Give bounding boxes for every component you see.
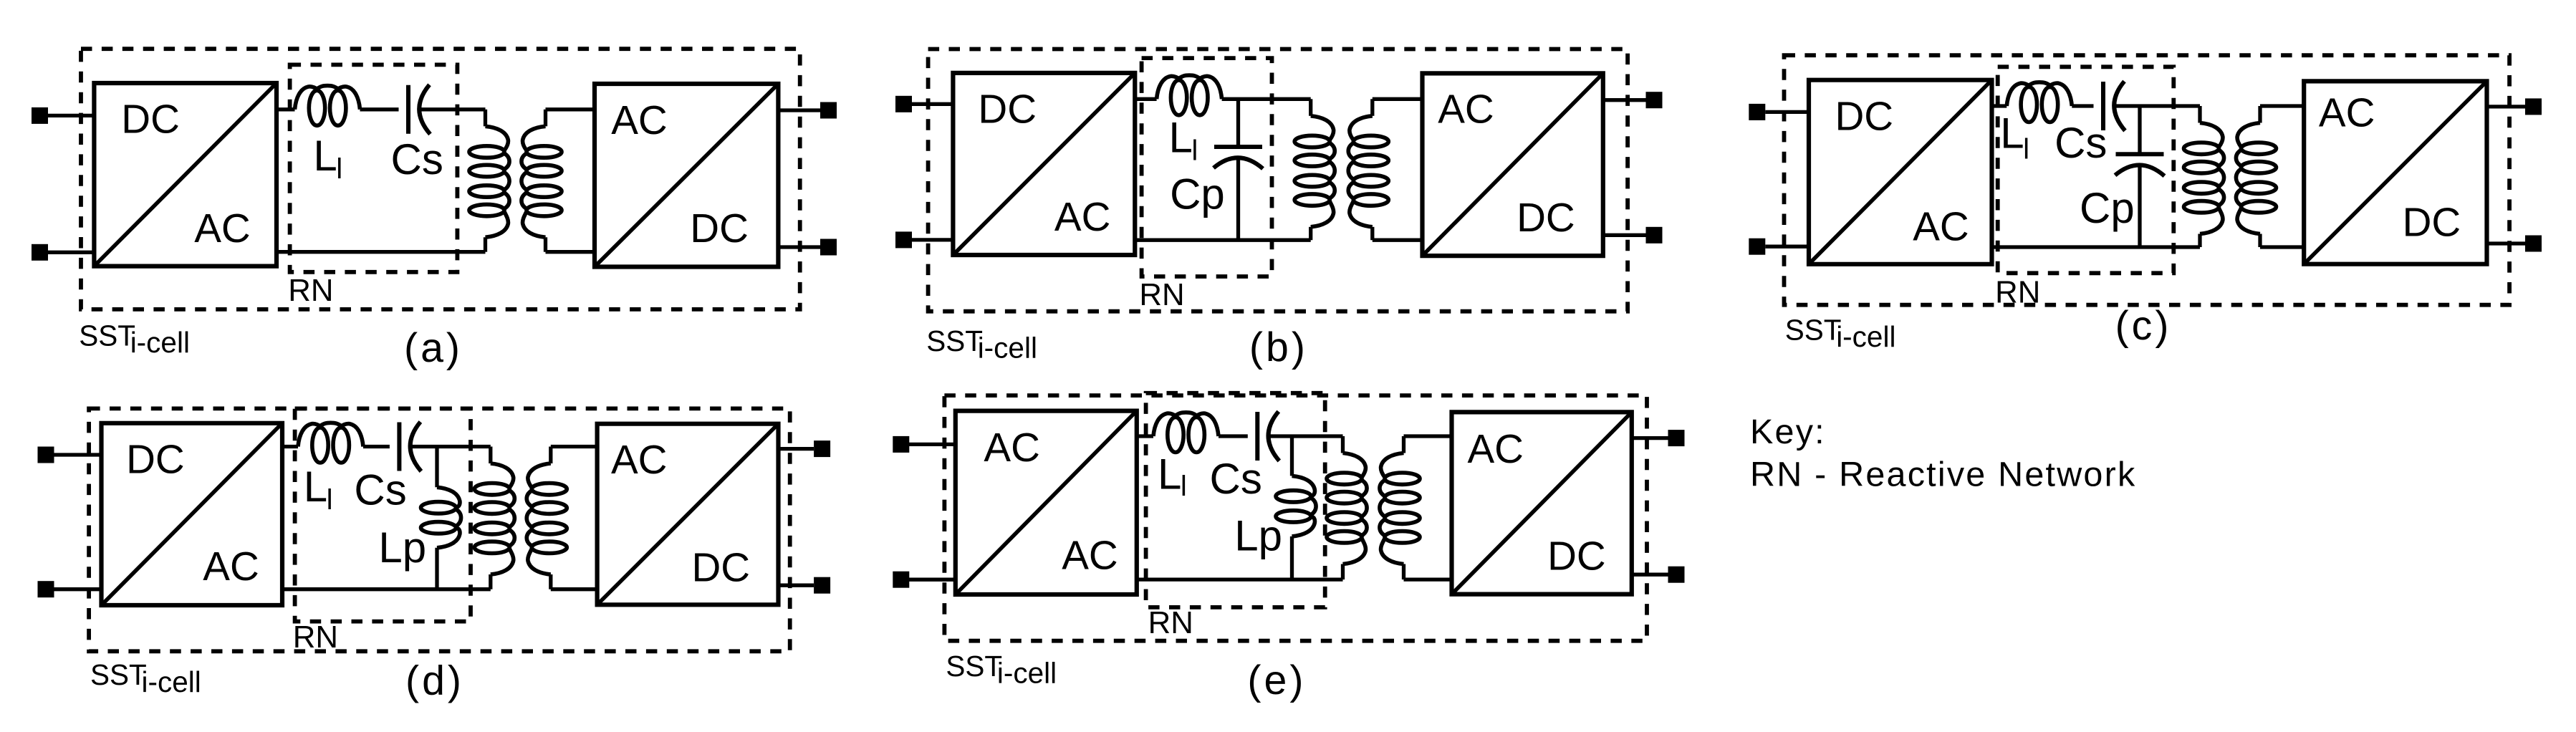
label Ll (a) [313,132,342,185]
wire Cs to transformer (a) [420,107,486,111]
svg-text:DC: DC [691,544,750,589]
label Cp (b) [1170,170,1225,218]
terminal input + (e) [893,436,956,453]
svg-text:AC: AC [1438,86,1494,131]
svg-text:AC: AC [984,425,1040,470]
svg-text:Cs: Cs [354,466,406,514]
inductor Ll (d) [298,423,363,463]
svg-text:l: l [327,484,333,516]
wire bottom rail U3 to transformer (b) [1135,239,1310,242]
caption (c) [2115,303,2172,349]
svg-text:SST: SST [926,324,983,357]
svg-text:Lp: Lp [1234,512,1282,560]
svg-text:i-cell: i-cell [997,656,1057,689]
wire transformer to U4 top (b) [1373,97,1423,101]
label RN (a) [288,273,333,308]
converter U3 DC/AC (b) [953,73,1135,255]
inductor Ll (c) [2007,82,2072,122]
inductor Ll (e) [1153,413,1219,453]
svg-text:AC: AC [1468,426,1524,471]
capacitor Cs (e) [1257,412,1279,461]
svg-text:AC: AC [611,437,668,482]
svg-text:Cp: Cp [1170,170,1225,218]
terminal output - (a) [778,239,837,256]
label Ll (e) [1158,451,1187,502]
svg-text:SST: SST [79,319,135,352]
svg-text:L: L [1158,451,1181,499]
svg-text:DC: DC [1835,94,1894,139]
svg-text:RN: RN [1139,277,1184,312]
svg-text:Cs: Cs [2054,119,2107,167]
svg-text:SST: SST [946,650,1002,683]
wire U1 to Ll (a) [277,107,295,111]
svg-text:AC: AC [1054,194,1111,239]
converter U8 AC/DC (d) [597,424,779,605]
svg-text:DC: DC [1547,534,1606,579]
SST i-cell (e) outer dashed box [944,395,1647,641]
svg-text:L: L [1169,113,1193,161]
label SST i-cell (a) [79,319,190,360]
svg-text:l: l [2023,133,2029,165]
label RN (c) [1995,275,2040,310]
svg-text:L: L [313,132,337,180]
svg-text:i-cell: i-cell [130,326,190,359]
wire U5 to Ll (c) [1992,104,2007,107]
reactive network RN dashed box (c) [1998,67,2174,273]
terminal output - (b) [1603,227,1663,244]
wire bottom rail U9 to transformer (e) [1137,577,1343,581]
key heading text [1750,413,1826,451]
converter U5 DC/AC (c) [1809,80,1992,264]
svg-text:SST: SST [1785,314,1842,347]
svg-text:Cp: Cp [2080,184,2135,232]
inductor Ll (a) [295,86,360,126]
label Lp (e) [1234,512,1282,560]
wire transformer to U6 top (c) [2260,104,2304,107]
svg-text:AC: AC [203,544,259,589]
svg-text:DC: DC [978,87,1037,132]
wire transformer to U10 top (e) [1404,434,1452,438]
terminal output - (c) [2487,236,2542,252]
terminal output + (e) [1632,430,1685,446]
wire U9 to Ll (e) [1137,434,1153,438]
svg-text:l: l [336,153,342,185]
svg-text:SST: SST [90,658,147,691]
svg-text:(b): (b) [1249,324,1308,370]
svg-text:AC: AC [611,97,668,143]
svg-text:DC: DC [121,97,180,142]
terminal input - (d) [38,581,102,597]
caption (d) [405,658,464,703]
terminal input + (c) [1749,104,1809,120]
wire transformer to U2 top (a) [546,107,595,111]
svg-text:DC: DC [126,436,185,481]
svg-text:i-cell: i-cell [1836,320,1895,353]
converter U1 DC/AC (a) [94,83,277,266]
terminal input - (a) [32,244,94,261]
svg-text:AC: AC [194,206,251,251]
wire Ll to node A (b) [1222,97,1311,101]
terminal input + (d) [38,447,102,463]
label Ll (b) [1169,113,1198,166]
wire Ll to Cs (a) [360,107,399,111]
svg-text:AC: AC [1062,533,1118,578]
wire Cs to node B (c) [2115,104,2200,107]
svg-text:AC: AC [2319,90,2375,135]
transformer T4 (d) [474,447,567,589]
svg-text:DC: DC [2403,200,2461,245]
transformer T5 (e) [1327,436,1420,579]
converter U10 AC/DC (e) [1452,412,1632,594]
wire bottom rail U1 to transformer (a) [277,250,486,254]
transformer T1 (a) [469,110,562,252]
reactive network RN dashed box (e) [1146,393,1325,607]
terminal input - (b) [895,231,953,248]
inductor Ll (b) [1157,75,1222,115]
converter U7 DC/AC (d) [102,423,283,605]
label Lp (d) [378,524,426,572]
terminal output - (d) [779,577,831,594]
svg-text:Cs: Cs [391,135,443,183]
SST i-cell (d) outer dashed box [89,408,790,651]
wire transformer to U4 bottom (b) [1373,239,1423,242]
terminal output + (c) [2487,98,2542,115]
wire transformer to U6 bottom (c) [2260,245,2304,249]
converter U4 AC/DC (b) [1423,73,1603,256]
SST i-cell (c) outer dashed box [1784,55,2510,305]
svg-text:i-cell: i-cell [142,665,201,698]
label RN (e) [1148,605,1193,640]
svg-text:Lp: Lp [378,524,426,572]
wire Cs to node C (d) [410,445,490,448]
label RN (d) [293,620,338,655]
label Cs (e) [1210,455,1262,503]
svg-text:Key:: Key: [1750,413,1826,451]
svg-text:DC: DC [690,206,749,251]
wire transformer to U10 bottom (e) [1404,577,1452,581]
svg-text:AC: AC [1913,204,1969,249]
reactive network RN dashed box (a) [290,64,458,271]
wire Cs to node D (e) [1269,434,1342,438]
capacitor Cs (d) [399,422,421,471]
capacitor Cs (a) [408,85,431,134]
label Ll (c) [2000,110,2029,165]
svg-text:RN: RN [1148,605,1193,640]
svg-text:l: l [1181,471,1187,502]
terminal output + (a) [778,102,837,119]
terminal output - (e) [1632,567,1685,583]
wire Ll to Cs (e) [1219,434,1248,438]
SST i-cell (b) outer dashed box [928,49,1628,312]
wire transformer to U8 top (d) [551,445,597,448]
converter U2 AC/DC (a) [595,84,778,267]
wire U7 to Ll (d) [282,445,298,448]
caption (b) [1249,324,1308,370]
svg-text:RN - Reactive Network: RN - Reactive Network [1750,455,2136,493]
svg-text:RN: RN [1995,275,2040,310]
reactive network RN dashed box (d) [295,408,471,621]
terminal input - (c) [1749,239,1809,255]
inductor Lp (d) [421,447,461,589]
svg-text:(e): (e) [1247,658,1306,703]
terminal input - (e) [893,572,956,588]
svg-text:(d): (d) [405,658,464,703]
wire bottom rail U5 to transformer (c) [1992,245,2201,249]
wire transformer to U2 bottom (a) [546,250,595,254]
svg-text:L: L [304,463,327,511]
label Cs (a) [391,135,443,183]
capacitor Cp (b) [1213,99,1263,240]
terminal input + (b) [895,96,953,112]
caption (a) [404,325,463,371]
svg-text:RN: RN [293,620,338,655]
label SST i-cell (c) [1785,314,1896,354]
terminal output + (d) [779,440,831,457]
svg-text:DC: DC [1517,195,1575,240]
svg-text:(a): (a) [404,325,463,371]
label RN (b) [1139,277,1184,312]
converter U9 AC/AC (e) [956,411,1137,594]
label Cp (c) [2080,184,2135,232]
svg-text:l: l [1192,135,1198,166]
key RN definition text [1750,455,2136,493]
svg-text:Cs: Cs [1210,455,1262,503]
wire U3 to Ll (b) [1135,97,1156,101]
label Cs (c) [2054,119,2107,167]
converter U6 AC/DC (c) [2304,81,2486,264]
SST i-cell (a) outer dashed box [81,49,800,309]
svg-text:(c): (c) [2115,303,2172,349]
label SST i-cell (d) [90,658,201,698]
wire Ll to Cs (d) [363,445,390,448]
reactive network RN dashed box (b) [1142,58,1272,276]
svg-text:L: L [2000,110,2024,158]
caption (e) [1247,658,1306,703]
label Cs (d) [354,466,406,514]
label Ll (d) [304,463,333,516]
label SST i-cell (b) [926,324,1037,365]
terminal output + (b) [1603,92,1663,108]
terminal input + (a) [32,107,94,124]
wire bottom rail U7 to transformer (d) [282,587,491,591]
wire transformer to U8 bottom (d) [551,587,597,591]
transformer T3 (c) [2184,106,2277,247]
svg-text:RN: RN [288,273,333,308]
label SST i-cell (e) [946,650,1057,690]
svg-text:i-cell: i-cell [978,331,1037,364]
wire Ll to Cs (c) [2072,104,2093,107]
capacitor Cs (c) [2103,82,2125,131]
transformer T2 (b) [1294,99,1388,240]
inductor Lp (e) [1276,436,1316,579]
capacitor Cp (c) [2115,106,2165,247]
